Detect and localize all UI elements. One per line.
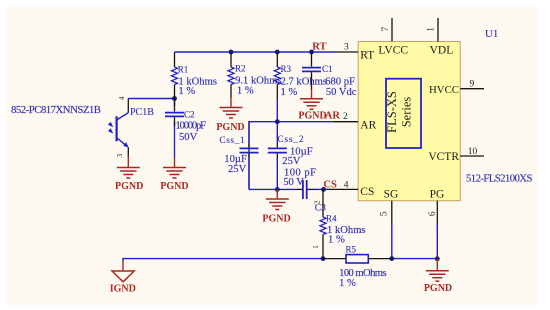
wire SG to PG bottom rail [392,258,438,260]
svg-text:1 %: 1 % [237,86,254,97]
capacitor C1 [302,52,357,98]
svg-text:PGND: PGND [160,181,188,192]
wire C3 to CS junction [313,188,325,190]
svg-text:50V: 50V [179,132,198,143]
svg-text:Series: Series [400,97,414,128]
svg-text:1: 1 [427,27,437,32]
svg-text:PGND: PGND [216,122,244,133]
svg-text:1 %: 1 % [328,234,345,245]
svg-text:VCTR: VCTR [428,151,459,163]
svg-text:VDL: VDL [430,45,454,57]
resistor R1 [172,52,217,99]
pin 6 PG [428,189,444,225]
svg-text:PGND: PGND [298,111,326,122]
svg-text:2: 2 [312,200,321,204]
svg-text:PGND: PGND [262,214,290,225]
svg-text:10µF: 10µF [224,154,247,165]
svg-text:RT: RT [312,41,326,52]
svg-text:7: 7 [381,26,391,31]
wire C2 branch [174,99,176,107]
svg-text:3: 3 [344,43,349,53]
svg-text:1 %: 1 % [281,87,298,98]
capacitor C3 [283,167,326,213]
svg-text:4: 4 [344,180,349,190]
svg-text:CS: CS [323,179,337,190]
svg-text:FLS-XS: FLS-XS [385,91,399,133]
svg-text:3: 3 [115,153,124,157]
svg-text:PGND: PGND [424,283,452,294]
junction node CS [321,187,326,192]
pin 5 SG [379,189,398,225]
svg-text:R3: R3 [281,64,292,74]
junction node PG rail [435,256,440,261]
junction node R2 top [229,50,234,55]
svg-text:4: 4 [117,96,126,100]
wire PG vertical [436,224,438,259]
svg-text:Css_1: Css_1 [220,135,245,145]
svg-text:25V: 25V [228,164,247,175]
junction node AR/R3/Css_2 [275,119,280,124]
svg-text:PGND: PGND [115,181,143,192]
svg-text:5: 5 [379,211,389,216]
wire SG vertical [391,224,393,259]
ground PGND (C2) [160,157,188,192]
svg-text:9: 9 [470,80,475,90]
svg-text:CS: CS [360,186,374,198]
capacitor C2 [165,99,206,144]
wire bottom rail IGND to R5 [123,259,323,262]
wire AR net [249,122,334,190]
resistor R3 [274,52,327,100]
wire R3 to Css_2 vertical [276,100,278,143]
svg-text:1 %: 1 % [178,86,195,97]
svg-text:1 %: 1 % [339,278,356,289]
svg-text:6: 6 [428,211,438,216]
pin 10 VCTR [428,147,484,163]
svg-text:PC1B: PC1B [130,107,154,118]
svg-text:AR: AR [325,111,341,122]
svg-text:LVCC: LVCC [378,45,408,57]
svg-text:PG: PG [430,189,445,201]
junction node SG rail [389,256,394,261]
svg-text:Css_2: Css_2 [278,134,304,144]
light arrows into base [108,122,113,134]
wire collector to R1 bottom [128,98,174,100]
capacitor Css_2 [268,134,313,167]
svg-text:C1: C1 [322,64,333,74]
pin 7 LVCC [378,18,408,57]
pin 3 RT [335,43,374,62]
resistor R4 [311,189,366,258]
svg-text:10000pF: 10000pF [176,121,207,132]
svg-text:R2: R2 [235,64,246,74]
svg-text:IGND: IGND [110,283,136,294]
svg-text:10: 10 [468,147,478,157]
ground IGND [110,261,136,294]
svg-text:C2: C2 [184,109,195,119]
junction node Css bottom ground [275,187,280,192]
resistor R5 (chip resistor) [323,245,392,290]
junction node R4 bottom [321,256,326,261]
capacitor Css_1 [220,135,259,175]
resistor R2 [228,52,282,98]
svg-text:AR: AR [360,120,376,132]
ground PGND (PC1B emitter) [115,156,143,193]
svg-text:R5: R5 [346,245,357,255]
wire Css_2 lower vertical [276,158,278,189]
svg-text:512-FLS2100XS: 512-FLS2100XS [466,173,533,185]
pin 4 CS [325,180,375,197]
svg-text:R1: R1 [178,65,189,75]
svg-text:2: 2 [343,112,348,122]
svg-text:50 Vdc: 50 Vdc [326,87,357,98]
svg-text:SG: SG [384,189,399,201]
svg-text:RT: RT [360,50,374,62]
svg-text:852-PC817XNNSZ1B: 852-PC817XNNSZ1B [11,104,101,116]
svg-text:25V: 25V [282,156,301,167]
ground PGND (PG pin) [424,259,452,294]
op-amp U1 (IC body 512-FLS2100XS) [358,42,460,201]
wire Css_1 verticals [248,122,250,143]
svg-text:U1: U1 [485,28,498,40]
junction node R1/C2/collector [172,96,177,101]
svg-text:HVCC: HVCC [429,84,459,96]
wire top rail RT net [175,51,336,53]
junction node R3 top [275,50,280,55]
ground PGND (Css bottom) [262,189,290,224]
ground PGND (R2) [216,98,244,134]
junction node RT/C1 [309,50,314,55]
pin 2 AR [334,112,377,132]
svg-text:50 V: 50 V [283,177,304,188]
ground PGND (C1) [298,89,326,121]
svg-text:1: 1 [311,245,320,249]
pin 1 VDL [427,18,454,57]
transistor PC1B (opto phototransistor) [115,96,154,157]
pin 9 HVCC [429,80,484,96]
wire Css bottom rail [249,188,297,190]
svg-text:R4: R4 [326,214,337,224]
